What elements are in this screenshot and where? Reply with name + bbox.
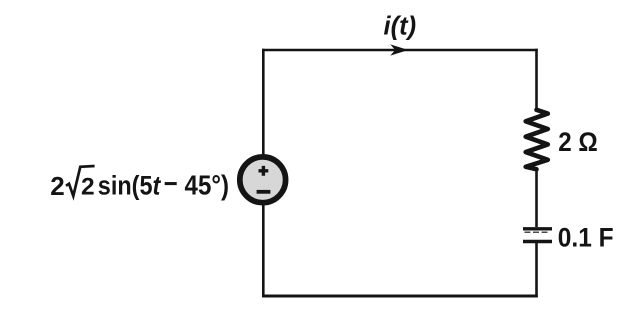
capacitor C plate bottom [523,240,552,244]
svg-text:i(t): i(t) [384,13,417,41]
svg-text:2: 2 [81,174,95,201]
wire left upper [262,49,265,156]
svg-text:sin(5t: sin(5t [98,170,161,200]
minus terminal [257,190,271,194]
source value label [50,166,229,201]
wire left lower [262,204,265,297]
wire top [262,49,538,52]
svg-text:2: 2 [50,171,64,201]
capacitor C plate top [523,227,552,230]
wire right upper [535,49,538,111]
voltage source VS [240,157,286,203]
radical sign [66,166,95,196]
resistor R 2ohm [526,110,548,170]
wire right lower [535,243,538,297]
wire right middle [535,168,538,227]
plus terminal [259,166,269,176]
wire bottom [262,295,538,298]
svg-text:2 Ω: 2 Ω [558,127,598,157]
current arrow [392,45,408,55]
svg-text:0.1 F: 0.1 F [558,222,614,252]
svg-text:− 45°): − 45°) [164,168,229,200]
